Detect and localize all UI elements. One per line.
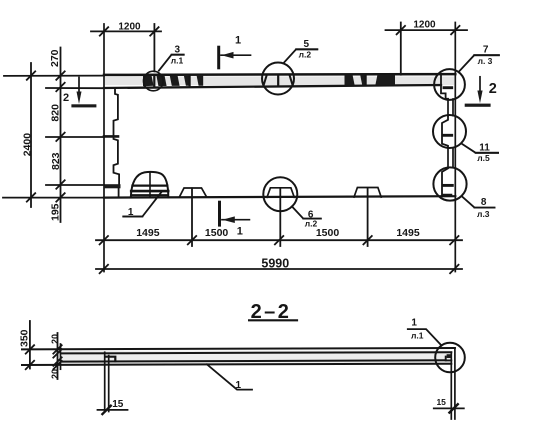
tick 1200 left b <box>150 27 158 35</box>
dome center line <box>149 172 151 197</box>
section slab second line <box>61 352 452 353</box>
tick 20 d <box>53 361 61 369</box>
top rail dark segment C <box>170 76 180 86</box>
svg-text:л. 3: л. 3 <box>478 56 493 66</box>
top rail dark segment A <box>143 76 154 86</box>
tick row1 x104 <box>100 236 108 244</box>
circle 11 tongue dash <box>443 134 451 137</box>
underline label 6 <box>303 218 321 220</box>
extension line below trapezoid right <box>367 188 369 246</box>
svg-text:1500: 1500 <box>316 227 340 239</box>
tick left leg 15 <box>102 406 110 414</box>
tick row1 x279 <box>275 236 283 244</box>
tick right leg 15 <box>449 404 457 412</box>
circle 8 tongue dash <box>443 184 452 187</box>
panel top edge top line <box>104 73 455 76</box>
top rail tick right of segment D <box>189 76 191 86</box>
top rail tick in circle 3 <box>153 76 155 87</box>
svg-text:20: 20 <box>50 334 60 344</box>
top rail tick in circle 5 <box>277 75 279 85</box>
section marker 2 right arrow <box>479 77 481 94</box>
leader for detail 8 <box>462 197 494 208</box>
section left leg <box>104 352 106 411</box>
leader for detail 11 <box>462 144 499 153</box>
section left leg dim line 15 <box>98 409 128 411</box>
section slab bottom line with extension <box>22 364 451 365</box>
top rail slash in circle 5 left <box>264 75 267 85</box>
bottom rib trapezoid middle <box>267 188 294 198</box>
underline label 7 <box>474 54 499 56</box>
section right key step <box>446 357 452 361</box>
circle 7 key content <box>434 75 448 99</box>
tick left chain y136 <box>56 133 64 141</box>
section right leg dim line 15 <box>434 407 464 409</box>
tick 2400 top <box>27 71 35 79</box>
leader section detail 1 <box>408 329 442 346</box>
svg-text:1: 1 <box>236 380 242 391</box>
circle 7 tongue dash <box>444 86 452 89</box>
right keyed profile between circle 11 and 8 <box>447 148 449 168</box>
detail circle 3 <box>144 71 164 91</box>
section slab top line with extension <box>22 348 455 349</box>
detail circle 5 <box>262 63 294 95</box>
left edge lower profile stub <box>118 188 120 197</box>
left edge dimension tick band at 823 boundary <box>104 135 118 138</box>
circle 11 key content <box>442 116 448 148</box>
svg-text:5: 5 <box>304 39 310 50</box>
tick 20 b <box>53 349 61 357</box>
section left support key bracket <box>107 357 116 362</box>
svg-text:1: 1 <box>411 317 417 328</box>
svg-text:л.1: л.1 <box>411 330 424 340</box>
section marker 2 right bar <box>465 104 491 107</box>
panel bottom edge extension line left <box>3 197 104 199</box>
tick 1200 right a <box>397 26 405 34</box>
panel top edge extension line left <box>4 75 104 77</box>
leader for detail 5 <box>284 49 317 62</box>
detail circle 11 <box>433 115 466 148</box>
svg-text:20: 20 <box>50 369 60 379</box>
underline plan label 1 <box>123 216 142 218</box>
svg-text:2: 2 <box>63 92 69 104</box>
tick row1 x367 <box>363 236 371 244</box>
extension line y182 <box>46 184 104 186</box>
leader for plan label 1 <box>123 191 162 216</box>
tick 350 bottom <box>26 361 34 369</box>
leader for detail 7 <box>460 55 499 71</box>
svg-text:195: 195 <box>50 203 62 221</box>
section left dim line 20s <box>57 333 59 379</box>
panel left edge vertical line <box>103 24 105 272</box>
detail circle 6 <box>263 177 297 211</box>
section marker 1 top arrow <box>221 54 251 56</box>
tick left chain y75 <box>56 71 64 79</box>
slab interior scan wash <box>62 351 450 364</box>
top rail dark segment E <box>197 76 204 86</box>
svg-text:5990: 5990 <box>261 256 289 270</box>
section right leg <box>454 348 456 419</box>
underline label 8 <box>475 207 495 209</box>
left keyed joint profile <box>114 88 120 184</box>
tick left chain y87 <box>56 83 64 91</box>
section marker 1 bottom bar <box>218 202 221 225</box>
tick 2400 bottom <box>27 193 35 201</box>
bottom dimension line row 1 <box>96 239 462 241</box>
svg-text:1495: 1495 <box>396 227 420 239</box>
dome inner line lower <box>131 190 168 193</box>
svg-text:л.5: л.5 <box>477 153 490 163</box>
right keyed profile between circle 7 and 11 <box>447 99 449 115</box>
section left dim line 350 <box>29 321 31 369</box>
left dimension line 2400 <box>30 63 32 207</box>
svg-text:8: 8 <box>481 197 487 208</box>
extension line y136 <box>46 136 104 138</box>
svg-text:2: 2 <box>489 81 497 97</box>
dimension line 1200 top left <box>91 30 161 32</box>
section marker 2 left arrow <box>78 78 80 97</box>
rail interior scan wash <box>105 77 454 86</box>
svg-text:15: 15 <box>112 399 124 410</box>
dome bottom band <box>133 194 168 196</box>
dimension line 1200 top right <box>386 29 468 31</box>
leader for detail 6 <box>292 206 321 218</box>
section title underline <box>249 319 297 321</box>
lifting loop dome detail <box>131 172 169 198</box>
extension line below trapezoid middle <box>279 188 281 246</box>
top rail dark segment D <box>184 76 189 86</box>
svg-text:2–2: 2–2 <box>251 301 292 323</box>
svg-text:л.3: л.3 <box>477 209 490 219</box>
extension line for 1200 right <box>400 23 402 75</box>
detail circle 8 <box>433 167 466 200</box>
tick row2 right <box>450 265 458 273</box>
svg-text:1: 1 <box>128 207 134 218</box>
svg-text:1200: 1200 <box>118 22 141 33</box>
detail circle 7 <box>434 69 465 100</box>
tick 1200 right b <box>451 26 459 34</box>
panel top edge bottom line <box>104 85 441 88</box>
tick 20 c <box>53 357 61 365</box>
top rail slash in circle 5 right <box>290 75 293 85</box>
top rail dark segment F <box>345 75 355 85</box>
top rail dark segment H <box>375 75 395 85</box>
svg-text:1: 1 <box>237 225 243 237</box>
bottom rib trapezoid left <box>180 188 207 197</box>
underline label 11 <box>476 152 499 154</box>
svg-text:270: 270 <box>49 49 61 67</box>
svg-text:1: 1 <box>235 34 241 46</box>
svg-text:820: 820 <box>50 104 62 122</box>
svg-text:2400: 2400 <box>21 133 33 157</box>
leader for detail 3 <box>159 55 184 71</box>
svg-text:7: 7 <box>483 45 489 56</box>
tick 20 a <box>53 345 61 353</box>
tick 350 top <box>26 345 34 353</box>
tick left chain y197 <box>56 193 64 201</box>
svg-text:1200: 1200 <box>413 19 436 30</box>
svg-text:л.1: л.1 <box>171 55 184 65</box>
panel right edge vertical line <box>454 23 456 272</box>
tick row2 left <box>100 265 108 273</box>
panel bottom edge line <box>104 196 455 197</box>
top rail dark segment G <box>360 75 364 85</box>
leader section label 1 <box>207 364 252 389</box>
dome inner line upper <box>132 185 167 187</box>
svg-text:350: 350 <box>19 329 31 347</box>
tick row1 x191 <box>188 236 196 244</box>
bottom rib trapezoid right <box>354 188 381 198</box>
section detail circle 1 <box>435 343 465 373</box>
extension line y87 <box>46 87 104 89</box>
section slab inner line <box>61 360 446 361</box>
left edge bottom dark band <box>104 184 121 188</box>
svg-text:11: 11 <box>479 142 490 153</box>
section marker 2 left bar <box>71 104 96 107</box>
section right key dark blob <box>447 354 452 358</box>
tick left chain y182 <box>56 180 64 188</box>
tick 1200 left a <box>100 27 108 35</box>
svg-text:15: 15 <box>436 397 446 407</box>
top rail dark segment B <box>157 76 167 86</box>
top rail tick right group <box>365 75 367 85</box>
svg-text:3: 3 <box>175 45 181 56</box>
left dimension line 270-820-823-195 <box>60 48 62 223</box>
extension line for 1200 left at circle 3 <box>153 24 155 71</box>
svg-text:823: 823 <box>50 152 62 170</box>
section marker 1 bottom arrow <box>222 219 249 221</box>
bottom dimension line row 2 (5990) <box>96 268 462 270</box>
tick row1 x454 <box>450 236 458 244</box>
underline label 3 <box>172 54 184 56</box>
extension line below trapezoid left <box>191 188 193 246</box>
underline label 5 <box>296 48 317 50</box>
svg-text:л.2: л.2 <box>299 50 312 60</box>
svg-text:1500: 1500 <box>205 227 229 239</box>
svg-text:1495: 1495 <box>136 227 160 239</box>
section marker 1 top bar <box>217 47 220 68</box>
section slab left end cap <box>60 344 62 369</box>
circle 8 key content <box>442 168 451 195</box>
